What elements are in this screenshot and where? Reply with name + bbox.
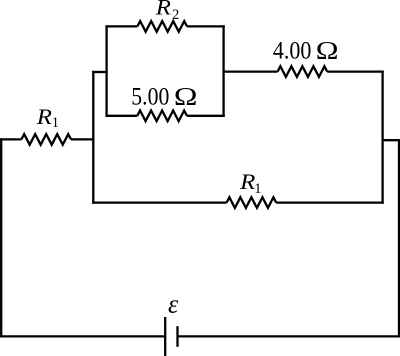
svg-text:1: 1 — [254, 181, 261, 197]
wire right outer vertical — [398, 139, 400, 337]
svg-text:R: R — [155, 0, 172, 20]
resistor R1 (left branch) — [21, 134, 71, 145]
wire inner right vertical — [381, 70, 383, 203]
wire top branch left segment (R2 branch) — [106, 25, 138, 27]
wire bottom right (from battery) — [178, 335, 400, 337]
battery long plate (EMF source) — [164, 317, 166, 356]
battery short plate — [176, 326, 178, 347]
wire left outer vertical — [0, 138, 2, 337]
resistor 4.00-ohm — [278, 66, 328, 77]
svg-text:R: R — [36, 104, 53, 129]
svg-text:ε: ε — [168, 290, 179, 319]
wire middle branch left segment — [92, 201, 226, 203]
svg-text:Ω: Ω — [316, 38, 339, 65]
resistor R2 — [137, 21, 187, 32]
wire inner left vertical — [92, 71, 94, 204]
wire parallel-box left vertical — [105, 25, 107, 117]
wire parallel-box right vertical — [222, 25, 224, 117]
svg-text:Ω: Ω — [174, 84, 198, 111]
wire lower box branch left segment (5.00-ohm branch) — [106, 115, 138, 117]
wire left branch segment left of R1 — [0, 138, 21, 140]
wire top branch right segment — [187, 25, 225, 27]
wire 4-ohm branch right segment — [327, 70, 384, 72]
wire lower box branch right segment — [187, 115, 225, 117]
svg-text:4.00: 4.00 — [273, 38, 312, 65]
svg-text:5.00: 5.00 — [131, 84, 169, 111]
wire bottom left (to battery) — [0, 335, 165, 337]
wire middle branch right segment — [276, 201, 384, 203]
svg-text:2: 2 — [172, 7, 179, 23]
resistor R1 (middle branch) — [227, 197, 277, 208]
wire stub from inner left vertical to parallel box — [92, 71, 108, 73]
wire 4-ohm branch left segment — [223, 70, 278, 72]
wire left branch segment right of R1 — [71, 138, 94, 140]
svg-text:1: 1 — [52, 115, 59, 131]
resistor 5.00-ohm — [137, 111, 187, 122]
wire jog between inner and outer right verticals — [382, 139, 400, 141]
